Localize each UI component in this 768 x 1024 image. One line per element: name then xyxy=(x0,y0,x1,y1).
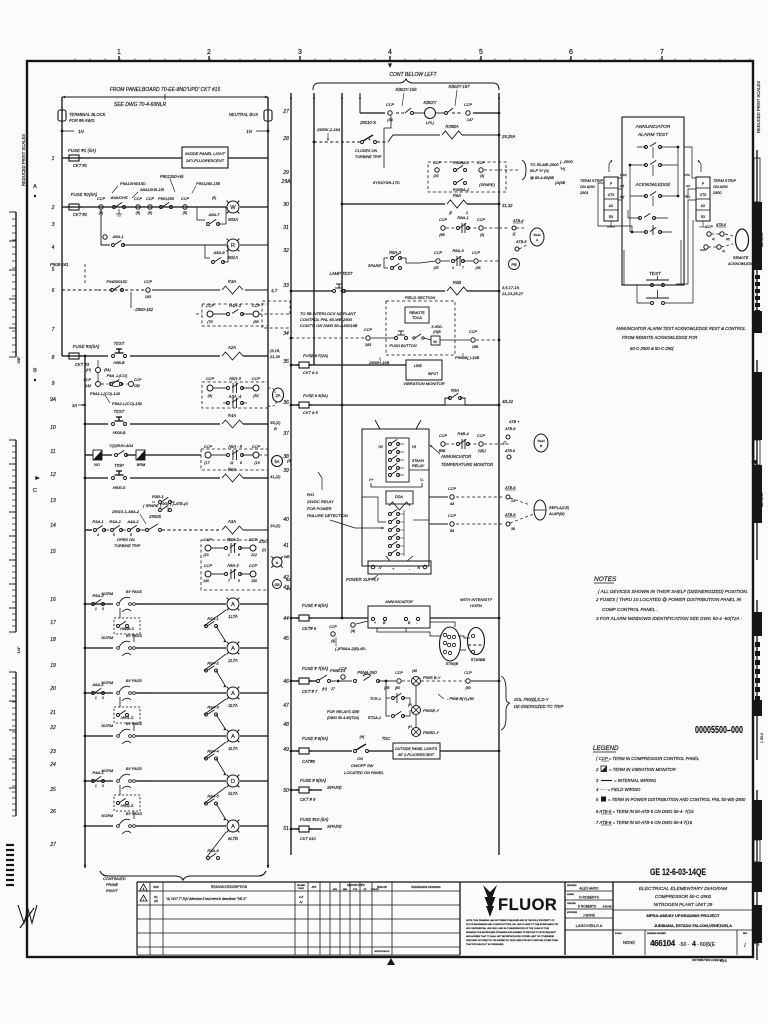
svg-text:R3B-3: R3B-3 xyxy=(152,494,164,499)
svg-text:21,23,25,27: 21,23,25,27 xyxy=(501,291,524,296)
svg-text:27: 27 xyxy=(282,109,289,115)
svg-text:INPUT: INPUT xyxy=(428,372,439,376)
TCR-1 contact xyxy=(386,681,390,698)
power supply funnel xyxy=(386,556,390,561)
svg-text:4: 4 xyxy=(97,533,99,537)
svg-text:-: - xyxy=(409,566,411,571)
svg-text:8: 8 xyxy=(238,553,240,557)
svg-text:R: R xyxy=(231,243,235,249)
svg-text:(DWG 50-4-60(72A): (DWG 50-4-60(72A) xyxy=(327,716,359,720)
solenoid F90SE-Y xyxy=(415,686,417,705)
svg-text:P9400015C: P9400015C xyxy=(106,279,127,284)
svg-text:UTA: UTA xyxy=(684,173,690,177)
svg-text:TAHH: TAHH xyxy=(537,439,544,443)
svg-text:41,(2): 41,(2) xyxy=(270,474,281,479)
svg-text:CHKD: CHKD xyxy=(298,888,305,890)
contact A9A-1 xyxy=(112,244,115,247)
svg-text:35: 35 xyxy=(283,359,289,365)
svg-text:CCP: CCP xyxy=(477,161,485,165)
svg-text:TERM STRIP: TERM STRIP xyxy=(580,179,603,183)
rung 6 wire dashed xyxy=(62,289,98,291)
contact R3A-2 xyxy=(104,529,109,531)
bypass switch at 781 xyxy=(117,780,120,783)
svg-text:3: 3 xyxy=(102,696,104,700)
temp monitor contact matrix box xyxy=(386,438,409,482)
svg-text:29005: 29005 xyxy=(148,514,161,519)
svg-text:R9A: R9A xyxy=(451,388,459,393)
right strip top arrows xyxy=(698,160,701,172)
svg-text:DESIGNED: DESIGNED xyxy=(567,885,577,887)
svg-text:4: 4 xyxy=(52,245,55,251)
svg-text:R6A: R6A xyxy=(453,193,461,198)
annunciator horn box xyxy=(368,606,430,628)
svg-text:OUTSIDE PANEL LIGHTS: OUTSIDE PANEL LIGHTS xyxy=(395,747,438,751)
svg-text:’H(: ’H( xyxy=(560,166,566,171)
ann test contact row 6 xyxy=(651,284,654,287)
ladder2 right rail xyxy=(498,93,500,855)
svg-text:CONTINUED: CONTINUED xyxy=(103,877,126,881)
right margin scale bar group 4 xyxy=(756,790,758,960)
svg-text:ANNUNCIATOR: ANNUNCIATOR xyxy=(384,600,413,604)
rung 51 spare wire xyxy=(290,828,293,831)
svg-text:A9A10H5-15I: A9A10H5-15I xyxy=(139,187,165,192)
svg-text:6Y010’3/5-17D: 6Y010’3/5-17D xyxy=(373,180,400,185)
svg-text:CCP: CCP xyxy=(249,563,258,568)
terminal CCP 4 xyxy=(183,205,187,209)
svg-text:616: 616 xyxy=(720,958,727,963)
svg-text:4,7: 4,7 xyxy=(271,288,278,293)
coil 3LTA xyxy=(227,687,239,699)
brace to 50-ME-2900 xyxy=(522,160,526,180)
svg-text:1: 1 xyxy=(117,49,121,56)
svg-text:BY PASS: BY PASS xyxy=(126,679,142,683)
svg-text:KB02Y-157: KB02Y-157 xyxy=(448,84,470,89)
svg-text:SEE DWG 70-4-60NLR: SEE DWG 70-4-60NLR xyxy=(114,102,167,108)
svg-text:REMOTE: REMOTE xyxy=(733,256,749,260)
terminal CCP r7b xyxy=(242,313,253,315)
svg-text:20: 20 xyxy=(49,686,56,692)
coil 6LTB xyxy=(227,820,239,832)
solenoid F905D-Y xyxy=(415,715,417,727)
CCP rung 41 wire xyxy=(429,523,448,525)
rung 3-4 lamp R branch xyxy=(101,209,110,245)
svg-text:= TERM IN VIBRATION MONITOR: = TERM IN VIBRATION MONITOR xyxy=(609,767,676,772)
terminal CCP horn2 xyxy=(331,632,335,636)
svg-text:BY PASS: BY PASS xyxy=(126,590,142,594)
svg-text:24VDC RELAY: 24VDC RELAY xyxy=(306,499,334,504)
svg-text:R8A-3: R8A-3 xyxy=(389,250,402,255)
right margin scale bar group 3 xyxy=(756,600,758,760)
contact F90B-LS xyxy=(317,680,320,683)
svg-text:A9A-1: A9A-1 xyxy=(111,234,123,239)
bypass switch at 648 xyxy=(117,647,120,650)
DDA contact column xyxy=(389,513,392,516)
title block outer line xyxy=(137,881,753,883)
svg-text:CCP: CCP xyxy=(439,218,447,222)
ladder1 left rail L1 xyxy=(61,97,63,356)
svg-text:( ALL DEVICES SHOWN IN THEIR: ( ALL DEVICES SHOWN IN THEIR SHELF (DEEN… xyxy=(598,589,748,594)
lamp 2A xyxy=(273,388,284,402)
svg-text:2((: 2(( xyxy=(725,237,731,241)
svg-text:TEMPERATURE MONITOR: TEMPERATURE MONITOR xyxy=(441,462,493,467)
svg-text:"A( NOT T",R(H Aftercine it ha: "A( NOT T",R(H Aftercine it had reed in … xyxy=(166,897,247,901)
svg-text:RIGHT: RIGHT xyxy=(106,889,118,893)
svg-text:(34: (34 xyxy=(387,118,393,122)
svg-text:B: B xyxy=(274,426,277,431)
svg-text:V+: V+ xyxy=(369,478,375,482)
svg-text:4 - - - = FIELD WIRING: 4 - - - = FIELD WIRING xyxy=(596,787,641,792)
svg-text:6LTB: 6LTB xyxy=(228,836,238,841)
svg-text:5T90(B: 5T90(B xyxy=(446,662,459,666)
svg-text:2: 2 xyxy=(207,49,211,56)
svg-text:CHECKED: CHECKED xyxy=(567,903,576,905)
ladder1 right rail N xyxy=(267,97,269,868)
rung 11 wire xyxy=(85,454,93,456)
svg-text:X-900-: X-900- xyxy=(430,325,443,329)
svg-text:(5): (5) xyxy=(136,211,141,215)
svg-text:R4A: R4A xyxy=(228,413,236,418)
svg-text:3(: 3( xyxy=(754,939,761,946)
svg-text:H2: H2 xyxy=(379,445,384,449)
svg-text:ON ANN: ON ANN xyxy=(713,185,728,189)
svg-text:A: A xyxy=(276,560,279,565)
rung 10 wire xyxy=(85,423,108,425)
svg-text:31: 31 xyxy=(283,225,289,231)
svg-text:= INTERNAL WIRING: = INTERNAL WIRING xyxy=(614,778,657,783)
svg-text:DRAWN: DRAWN xyxy=(297,884,306,887)
svg-text:LOCATED ON PANEL: LOCATED ON PANEL xyxy=(344,770,384,775)
svg-text:2LTA: 2LTA xyxy=(227,658,238,663)
svg-text:NORM: NORM xyxy=(101,724,113,728)
ladder1 inner rail L2 xyxy=(84,356,86,868)
brace SOL trouble xyxy=(501,676,510,730)
svg-text:-2900-162: -2900-162 xyxy=(134,307,154,312)
svg-text:TEST: TEST xyxy=(114,409,125,414)
svg-text:UTX: UTX xyxy=(700,193,707,197)
svg-text:23: 23 xyxy=(49,749,56,755)
svg-text:29A: 29A xyxy=(281,179,292,185)
svg-text:GE 12-6-03-14QE: GE 12-6-03-14QE xyxy=(650,867,706,878)
rung 28 dashed wire xyxy=(313,141,316,144)
svg-text:36: 36 xyxy=(511,527,515,531)
svg-text:32: 32 xyxy=(283,248,289,254)
contact R9A l2 xyxy=(449,397,452,400)
svg-text:P90B6(,)-16B: P90B6(,)-16B xyxy=(455,355,480,360)
lamp R 901A xyxy=(227,239,239,251)
svg-text:3(: 3( xyxy=(712,237,716,241)
svg-text:P9A2-L(CO)-152: P9A2-L(CO)-152 xyxy=(112,401,143,406)
svg-text:7: 7 xyxy=(462,266,464,270)
svg-text:903A: 903A xyxy=(228,217,238,222)
svg-text:ALAR(M): ALAR(M) xyxy=(548,512,565,516)
svg-text:LINE: LINE xyxy=(414,364,422,368)
lamp W 903A xyxy=(227,201,239,213)
svg-text:3 FOR ALARM WINDOWS IDENTI: 3 FOR ALARM WINDOWS IDENTIFICATION SEE D… xyxy=(596,616,743,621)
rev column xyxy=(736,930,738,955)
svg-text:DWG NO: DWG NO xyxy=(377,886,387,889)
svg-text:CCP: CCP xyxy=(477,218,485,222)
svg-text:FAILURE DETECTION: FAILURE DETECTION xyxy=(307,513,348,518)
svg-text:AX: AX xyxy=(701,204,706,208)
svg-text:(35: (35 xyxy=(433,266,438,270)
svg-text:26: 26 xyxy=(49,809,56,815)
svg-text:ACKNOWLEDGE: ACKNOWLEDGE xyxy=(635,182,671,187)
temp monitor internal wires xyxy=(409,469,429,471)
replace alarm bell xyxy=(534,500,546,520)
svg-text:5T40BB: 5T40BB xyxy=(471,657,486,662)
svg-text:NORM: NORM xyxy=(101,769,113,773)
svg-text:H9B-B: H9B-B xyxy=(113,361,125,365)
ladder2 inner rail a xyxy=(313,93,315,365)
svg-text:R6A: R6A xyxy=(228,467,236,472)
ladder2 rail c stub xyxy=(359,93,361,113)
svg-text:5A: 5A xyxy=(274,459,279,464)
svg-text:APP: APP xyxy=(312,886,317,889)
svg-text:10: 10 xyxy=(50,425,56,431)
svg-text:CCP: CCP xyxy=(439,434,447,438)
svg-text:13: 13 xyxy=(50,498,56,504)
svg-text:= TERM IN POWER DISTRIBUTI: = TERM IN POWER DISTRIBUTION AND CONTROL… xyxy=(608,797,746,802)
svg-text:18: 18 xyxy=(50,637,56,643)
dashed rung TAHH 37 xyxy=(441,442,445,446)
contact R3A-1 xyxy=(94,529,97,532)
svg-text:@ 60-4-60(6B: @ 60-4-60(6B xyxy=(530,176,554,180)
svg-text:FLUOR ENGINEERS AND CONSTRUCTO: FLUOR ENGINEERS AND CONSTRUCTORS, INC. A… xyxy=(466,923,558,926)
ladder2 inner rail b xyxy=(341,93,343,618)
fuse FU10 l2 xyxy=(299,826,309,832)
svg-text:2 FUSES ( THRU 10 LOCATED: 2 FUSES ( THRU 10 LOCATED @ POWER DISTRI… xyxy=(595,597,742,602)
lamp WB with rays xyxy=(272,557,282,567)
svg-text:A9A-7: A9A-7 xyxy=(207,212,220,217)
svg-text:H900-S: H900-S xyxy=(113,486,126,490)
ladder1 bottom rails end arrows xyxy=(84,865,87,868)
svg-text:ELECTRICAL ELEMENTARY DIAGRA: ELECTRICAL ELEMENTARY DIAGRAM xyxy=(639,886,728,892)
svg-text:A4A-2: A4A-2 xyxy=(126,519,139,524)
svg-text:2900: 2900 xyxy=(712,191,722,195)
svg-text:CCP: CCP xyxy=(206,376,215,381)
svg-text:F905D-Y: F905D-Y xyxy=(423,730,439,735)
svg-text:CCP: CCP xyxy=(472,251,480,255)
svg-text:212: 212 xyxy=(250,553,257,557)
svg-text:143: 143 xyxy=(85,384,91,388)
left term strip 2901 xyxy=(604,177,618,221)
ann internal verticals xyxy=(629,165,631,232)
pushbutton TRIP rung12 xyxy=(112,477,115,480)
horn speaker big xyxy=(440,627,461,661)
ladder1 span arrow FROM PANELBOARD xyxy=(62,96,268,98)
rung 2 wire xyxy=(62,206,226,208)
svg-text:14: 14 xyxy=(511,499,515,503)
svg-text:DISTRIBUTION CODE NO: DISTRIBUTION CODE NO xyxy=(692,958,723,962)
svg-text:TAHH: TAHH xyxy=(533,233,540,237)
svg-text:3: 3 xyxy=(52,222,55,228)
svg-text:TDC: TDC xyxy=(382,736,392,741)
svg-text:1: 1 xyxy=(228,553,230,557)
svg-text:CKT #1: CKT #1 xyxy=(73,163,87,168)
svg-text:2(5)1: 2(5)1 xyxy=(477,449,486,453)
svg-text:CCP: CCP xyxy=(464,671,472,675)
terminal CCP rung32 xyxy=(436,259,440,263)
svg-text:ATB-6: ATB-6 xyxy=(504,449,515,453)
svg-text:REFERENCE DRAWING: REFERENCE DRAWING xyxy=(411,885,440,889)
coil 1LTA xyxy=(227,598,239,610)
svg-text:1: 1 xyxy=(95,607,97,611)
rung 35 vibration monitor wire xyxy=(290,364,293,367)
pushbutton TEST rung10 xyxy=(112,423,115,426)
svg-text:ALARM TEST: ALARM TEST xyxy=(637,132,669,138)
svg-text:CCP: CCP xyxy=(339,667,347,671)
svg-text:30: 30 xyxy=(283,202,289,208)
contact R4A-1 xyxy=(92,780,95,783)
svg-text:FUSE #1 (5A): FUSE #1 (5A) xyxy=(68,148,97,153)
contact R9A-2 xyxy=(92,603,95,606)
svg-text:25: 25 xyxy=(49,787,56,793)
svg-text:CCP: CCP xyxy=(97,197,105,201)
svg-text:FLUOR: FLUOR xyxy=(498,896,557,914)
rung 13 dashes to overload xyxy=(162,529,220,531)
svg-text:CLOSES ON: CLOSES ON xyxy=(355,149,377,153)
svg-text:4LTA: 4LTA xyxy=(228,746,238,751)
svg-text:(9,16,: (9,16, xyxy=(270,348,280,353)
rung coil 6LTB wire xyxy=(85,825,113,827)
svg-text:3: 3 xyxy=(102,607,104,611)
svg-text:FIELD SECTION: FIELD SECTION xyxy=(405,295,435,300)
rung 29 dashed box spare xyxy=(428,162,506,192)
rung 31 dashed TAHH xyxy=(441,226,445,230)
svg-text:PUSH BUTTON: PUSH BUTTON xyxy=(389,344,416,348)
ann test contact row 2 xyxy=(645,164,648,167)
svg-text:CCP: CCP xyxy=(84,378,92,382)
remote tdca box xyxy=(405,307,429,323)
svg-text:AX: AX xyxy=(685,184,691,188)
svg-text:CCP: CCP xyxy=(705,225,713,229)
svg-text:140: 140 xyxy=(203,579,209,583)
svg-text:WITH INTENSITY: WITH INTENSITY xyxy=(460,597,493,602)
terminal CCP 3 xyxy=(148,205,152,209)
rung 28 continuation xyxy=(377,141,388,143)
svg-text:38: 38 xyxy=(283,454,289,460)
svg-text:P: P xyxy=(702,182,705,186)
svg-text:1: 1 xyxy=(52,156,55,162)
svg-text:CCP: CCP xyxy=(204,563,213,568)
coil 4LTA xyxy=(227,730,239,742)
svg-text:28: 28 xyxy=(282,136,289,142)
svg-text:FROM REMOTE ACKNOWLEDGE FOR: FROM REMOTE ACKNOWLEDGE FOR xyxy=(622,335,697,340)
svg-text:R8A-3: R8A-3 xyxy=(452,248,464,253)
svg-text:LEGEND: LEGEND xyxy=(593,745,619,752)
CCP rung 40 wire xyxy=(429,496,448,498)
svg-text:(A(6B: (A(6B xyxy=(555,180,566,185)
svg-text:6: 6 xyxy=(569,49,573,56)
contact A6A-1 xyxy=(92,692,95,695)
svg-text:CCP: CCP xyxy=(433,161,441,165)
left margin scale ruler 1/8 inch xyxy=(15,672,17,816)
svg-text:(60: (60 xyxy=(465,686,470,690)
svg-text:(70: (70 xyxy=(207,320,213,324)
svg-text:CAT#8: CAT#8 xyxy=(302,759,315,764)
svg-text:MPRA•AMUAY UPGRADING PROJECT: MPRA•AMUAY UPGRADING PROJECT xyxy=(647,913,721,918)
overload R39BA xyxy=(442,131,462,139)
svg-text:C: C xyxy=(33,488,37,494)
svg-text:CCP: CCP xyxy=(252,303,261,308)
coil 5LTA xyxy=(227,775,239,787)
svg-text:3LTA: 3LTA xyxy=(228,703,238,708)
svg-text:2: 2 xyxy=(595,767,599,772)
lamp PB rung32 xyxy=(509,259,520,270)
svg-text:4: 4 xyxy=(692,941,696,948)
svg-text:CCP: CCP xyxy=(395,671,403,675)
svg-text:(36: (36 xyxy=(412,669,417,673)
svg-text:(5A): (5A) xyxy=(104,368,111,372)
lamp 5A xyxy=(272,456,283,467)
svg-text:TERMINAL BLOCK: TERMINAL BLOCK xyxy=(69,112,106,117)
svg-text:(5): (5) xyxy=(183,211,188,215)
svg-text:17: 17 xyxy=(50,620,56,626)
svg-text:46: 46 xyxy=(283,679,289,685)
svg-text:COMP CONTROL PANEL .: COMP CONTROL PANEL . xyxy=(602,607,658,612)
revision table xyxy=(136,882,138,955)
svg-text:SPARE: SPARE xyxy=(327,785,343,790)
svg-text:REMOTE: REMOTE xyxy=(409,311,425,315)
svg-text:SCALE: SCALE xyxy=(615,932,622,935)
svg-text:D ROBERTS: D ROBERTS xyxy=(578,905,597,909)
svg-text:FOR POWER: FOR POWER xyxy=(307,506,332,511)
svg-text:- F90B B(Y)-(60: - F90B B(Y)-(60 xyxy=(447,697,475,701)
contact R8A-3 nc xyxy=(441,260,450,262)
svg-text:TERM STRIP: TERM STRIP xyxy=(713,179,736,183)
svg-text:CONTROL PNL 60-WE-2900: CONTROL PNL 60-WE-2900 xyxy=(300,317,353,322)
svg-text:H1: H1 xyxy=(412,445,417,449)
svg-text:VIBRATION MONITOR: VIBRATION MONITOR xyxy=(403,381,444,386)
terminal CCP rung6 xyxy=(146,288,150,292)
fluor logo xyxy=(483,885,497,917)
svg-text:P5NA-250: P5NA-250 xyxy=(357,670,377,675)
svg-text:RX: RX xyxy=(686,195,691,199)
svg-text:RELAY: RELAY xyxy=(412,464,425,468)
terminal CCP r46 xyxy=(341,675,345,679)
svg-text:P901250: P901250 xyxy=(158,196,175,201)
svg-text:CCP: CCP xyxy=(134,378,142,382)
fuse FU3 xyxy=(69,353,79,359)
svg-text:P90B-161: P90B-161 xyxy=(50,262,69,267)
contact P901250 xyxy=(160,206,163,209)
svg-text:CONT BELOW LEFT: CONT BELOW LEFT xyxy=(389,72,437,78)
svg-text:50: 50 xyxy=(283,788,289,794)
device NO square rung11 xyxy=(93,450,102,460)
svg-text:D ROBERTS: D ROBERTS xyxy=(579,896,599,900)
svg-text:TURBINE TRIP: TURBINE TRIP xyxy=(114,544,141,548)
svg-text:A(: A( xyxy=(299,900,304,904)
contact A9A-8 drop rung4 xyxy=(205,245,210,258)
svg-text:ON ANN: ON ANN xyxy=(580,185,595,189)
svg-text:(H)B: (H)B xyxy=(433,330,441,334)
temp monitor outer box xyxy=(362,429,429,566)
svg-text:BY PASS: BY PASS xyxy=(126,722,142,726)
svg-text:J BONK: J BONK xyxy=(583,914,596,918)
svg-text:CCP: CCP xyxy=(364,328,372,332)
svg-text:( CCP = TERM IN COMPRESSOR: ( CCP = TERM IN COMPRESSOR CONTROL PANEL xyxy=(596,756,700,761)
svg-text:60-F ’H’ (0(: 60-F ’H’ (0( xyxy=(530,169,549,173)
svg-text:FUSE # 8(5A): FUSE # 8(5A) xyxy=(302,736,329,741)
fuse FU2 xyxy=(69,204,79,210)
svg-text:(4): (4) xyxy=(331,639,335,643)
svg-text:3: 3 xyxy=(596,778,599,783)
vibration monitor box xyxy=(406,360,442,380)
rung 1 wire xyxy=(62,157,182,159)
svg-text:A: A xyxy=(33,184,37,190)
svg-text:BRM: BRM xyxy=(137,463,146,467)
svg-text:M: M xyxy=(433,339,436,344)
